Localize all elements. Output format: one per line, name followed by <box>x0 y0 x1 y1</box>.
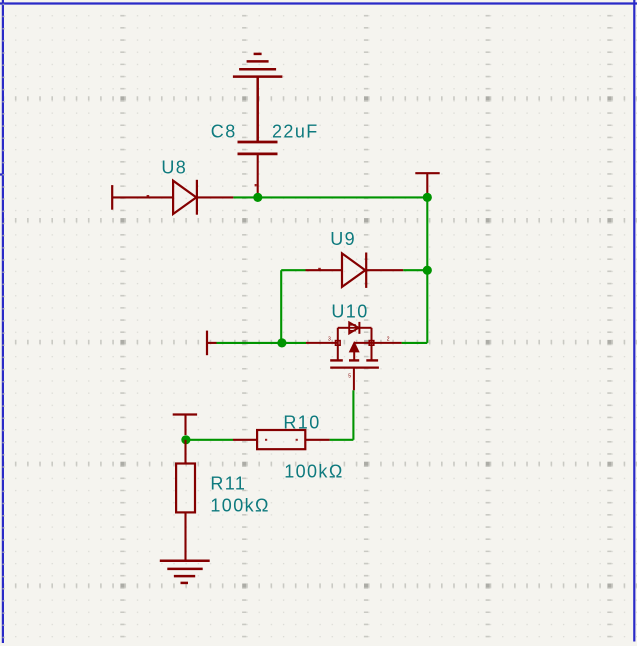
wire: left port to U10 source <box>217 342 307 344</box>
pin number tick U9 anode <box>318 268 321 270</box>
R10 reference label <box>283 413 320 433</box>
R11 reference label <box>210 473 246 493</box>
wire: junction to R10 <box>186 439 233 441</box>
svg-text:R10: R10 <box>283 413 320 433</box>
U10 pin number 3 <box>328 337 331 343</box>
R11 value 100k ohm <box>210 496 270 516</box>
U10 pin number 5 <box>348 374 351 380</box>
junction at U9 cathode <box>423 266 432 275</box>
earth ground (top, flipped) <box>233 54 283 142</box>
earth ground (bottom) <box>160 561 210 583</box>
U8 reference label <box>161 157 187 177</box>
svg-text:C8: C8 <box>211 122 237 142</box>
pin number tick R10 pin2 <box>296 439 298 441</box>
junction at C8 bottom <box>253 193 262 202</box>
pin stub (input port) left of U8 <box>112 185 137 210</box>
junction at R10/R11 <box>181 435 190 444</box>
wire: U10 gate down to R10 <box>330 390 354 440</box>
pin stub (port) left of U10 <box>207 331 217 356</box>
resistor R11 <box>176 440 195 561</box>
diode U9 <box>306 253 404 288</box>
pin number tick R10 pin1 <box>265 439 267 441</box>
wire: U9 cathode to right column <box>403 269 427 271</box>
mosfet U10 <box>306 322 402 390</box>
svg-text:100kΩ: 100kΩ <box>284 462 344 482</box>
wire: right column down to U10 drain row <box>426 270 428 343</box>
wire: U8 cathode to right column <box>233 196 427 198</box>
junction at U10 source branch <box>277 338 286 347</box>
U10 reference label <box>331 302 368 322</box>
capacitor C8 <box>238 142 278 194</box>
wire: U10 drain to right column <box>402 342 428 344</box>
svg-text:100kΩ: 100kΩ <box>210 496 270 516</box>
svg-text:U9: U9 <box>330 229 356 249</box>
svg-text:22uF: 22uF <box>272 122 319 142</box>
svg-text:2: 2 <box>387 337 390 343</box>
C8 reference label <box>211 122 237 142</box>
svg-text:R11: R11 <box>210 473 246 493</box>
pin number tick U8 anode <box>147 195 150 197</box>
wire: U9 anode branch <box>281 270 305 343</box>
svg-text:U8: U8 <box>161 157 187 177</box>
R10 value 100k ohm <box>284 462 344 482</box>
U9 reference label <box>330 229 356 249</box>
junction at right column top <box>423 193 432 202</box>
pin number tick C8 pin <box>255 184 257 186</box>
resistor R10 <box>233 430 330 449</box>
U10 pin number 2 <box>387 337 390 343</box>
pin stub (port) above R11 <box>173 415 197 436</box>
diode U8 <box>137 180 233 215</box>
svg-text:3: 3 <box>328 337 331 343</box>
C8 value 22uF <box>272 122 319 142</box>
wire: right column down to U9 row <box>426 197 428 270</box>
svg-text:5: 5 <box>348 374 351 380</box>
svg-text:U10: U10 <box>331 302 368 322</box>
pin stub (port) top right <box>415 173 439 193</box>
